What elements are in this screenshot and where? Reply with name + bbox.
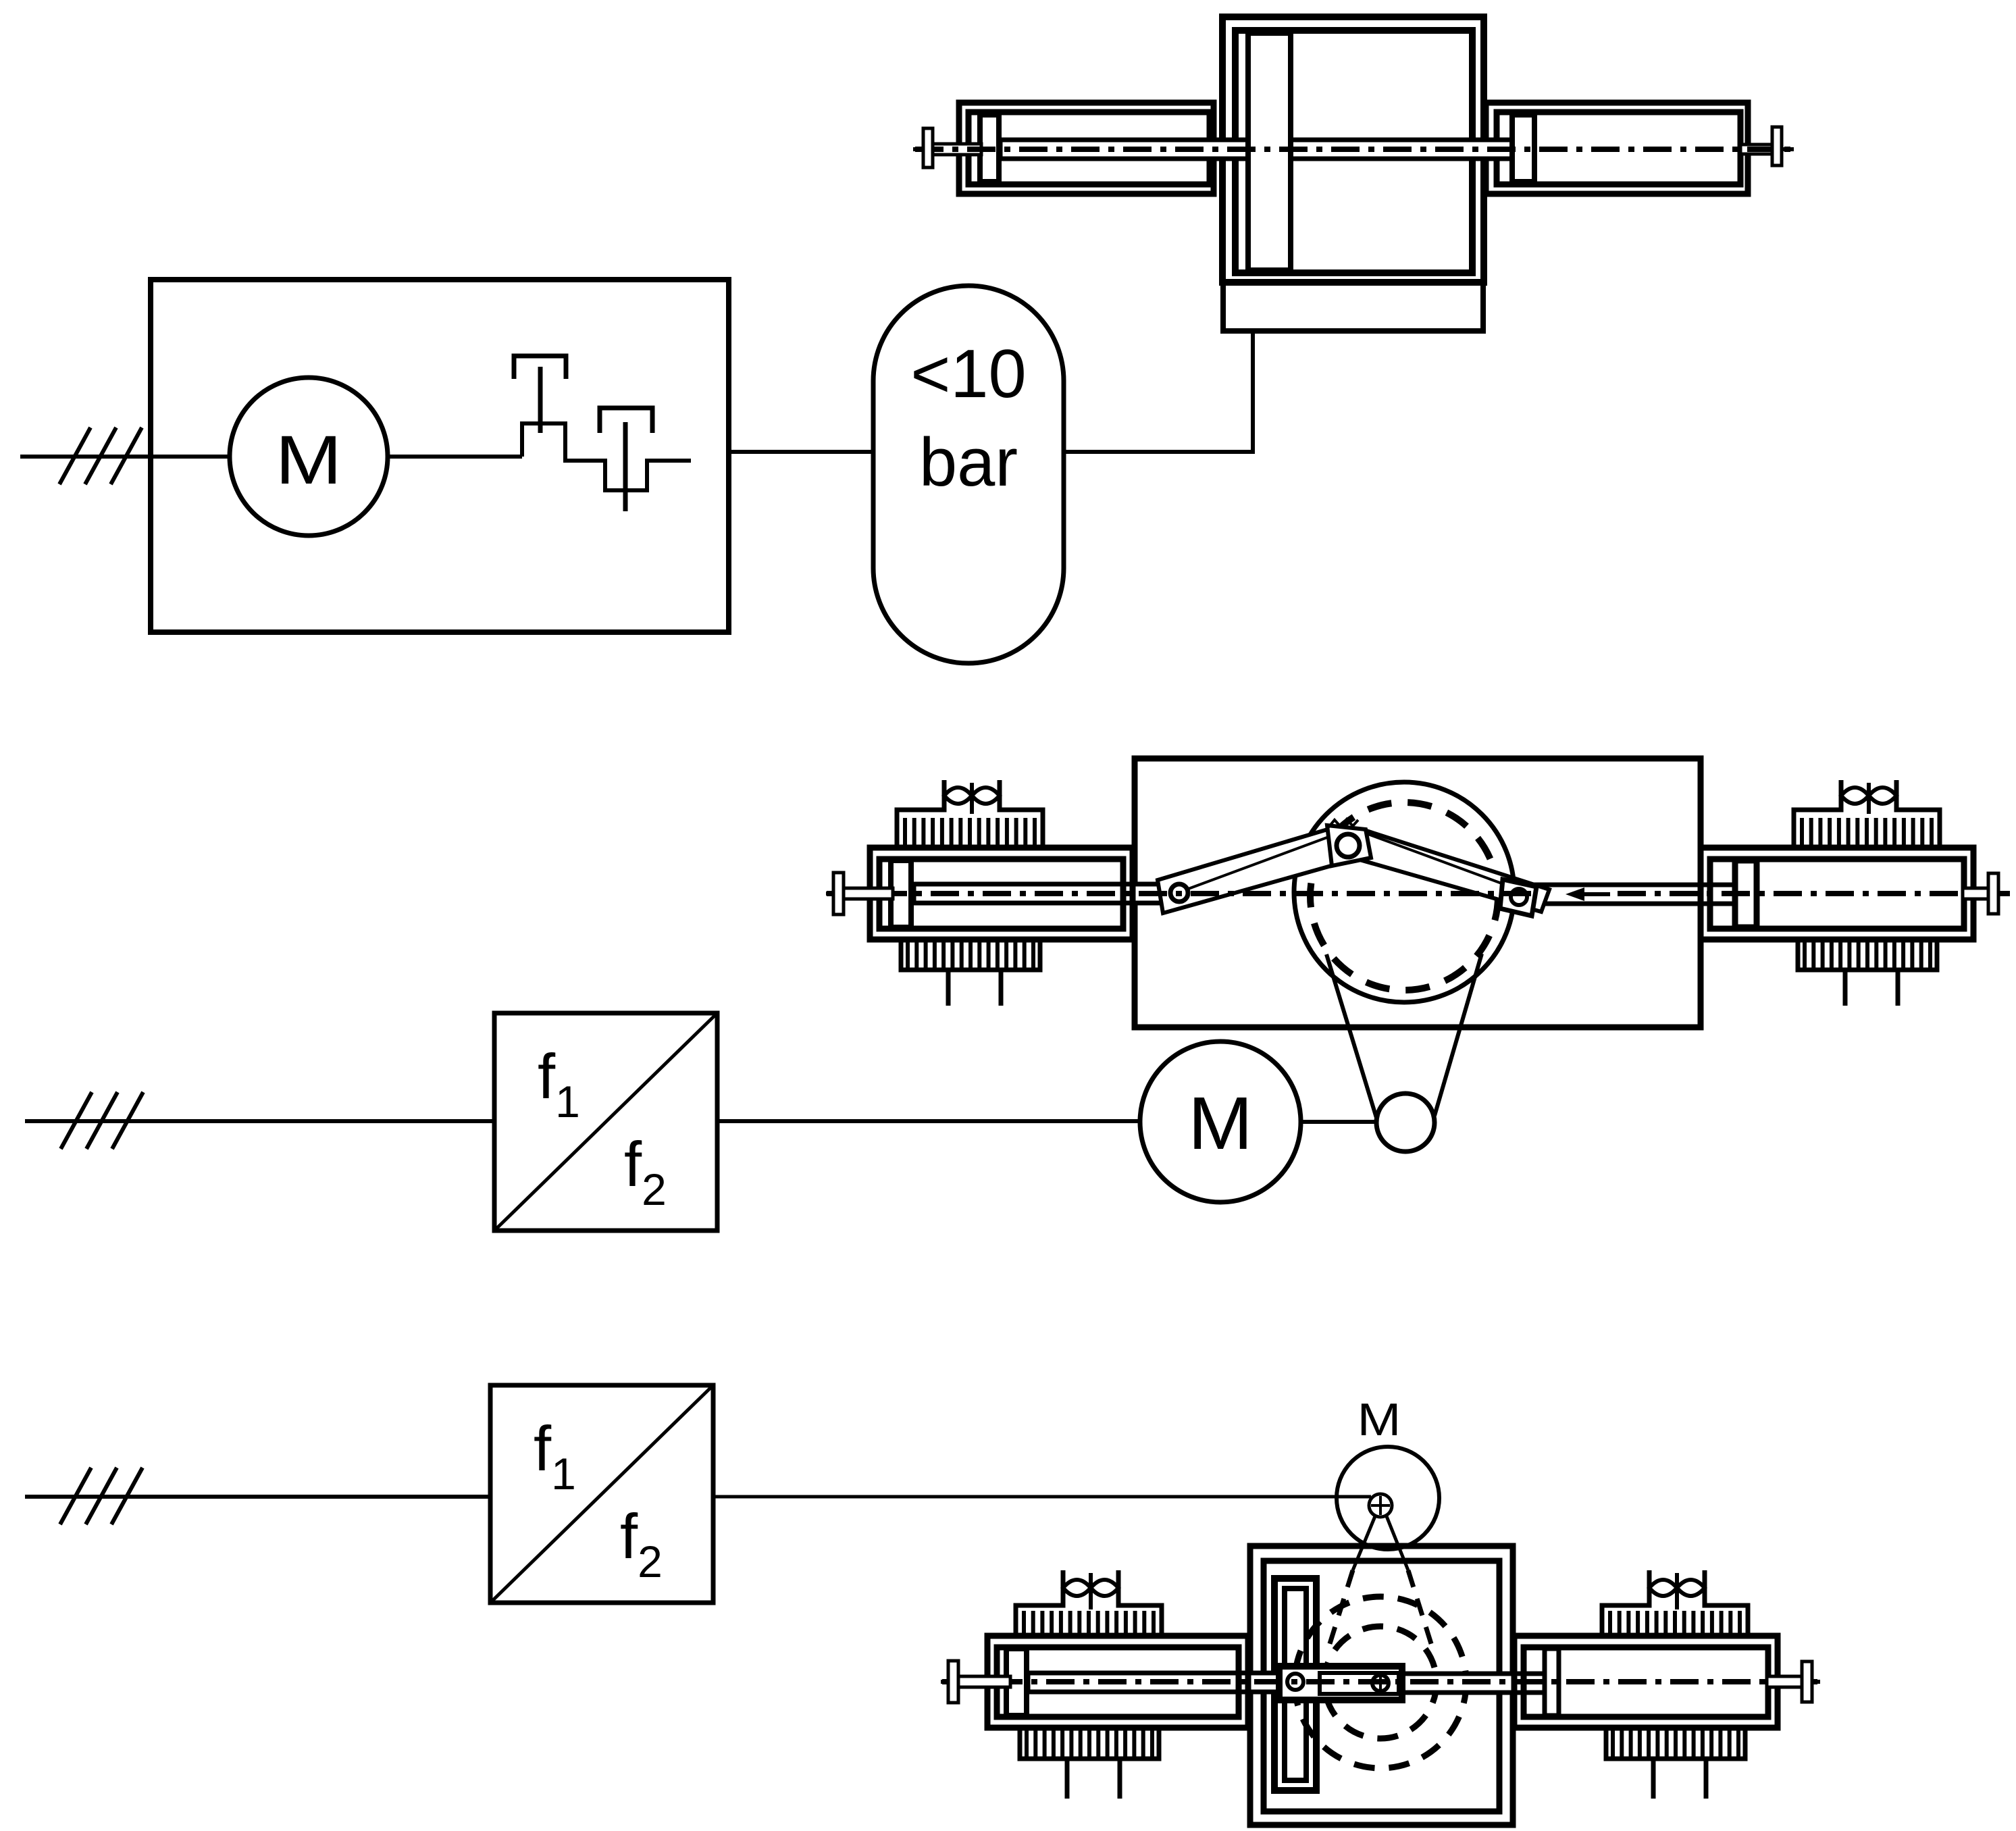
- left cylinder row 2 bottom fin block outline: [901, 939, 1040, 970]
- right cylinder row 2 bottom cooling fins: [1803, 941, 1807, 968]
- left cylinder row 3 piston: [1006, 1649, 1027, 1716]
- pipe: accumulator to compressor horizontal: [1064, 450, 1253, 454]
- crank solid circle: [1294, 782, 1514, 1002]
- right cylinder row1 outer casing: [1486, 103, 1748, 194]
- svg-text:M: M: [1188, 1082, 1253, 1165]
- right cylinder row 2 end cap stub: [1998, 892, 2007, 896]
- crank pin row 3: [1372, 1675, 1389, 1691]
- left cylinder row 2 bottom cooling fins: [906, 941, 910, 968]
- svg-text:bar: bar: [919, 425, 1018, 500]
- right cylinder row 3 end cap stub: [1812, 1680, 1820, 1684]
- motor M1 circle: [230, 378, 388, 536]
- right cylinder row 2 top fin block outline: [1794, 780, 1841, 848]
- belt pulley: [1376, 1093, 1435, 1152]
- left cylinder row 2 piston: [891, 860, 911, 927]
- right cylinder row 2 rod to end cap: [1963, 888, 1988, 899]
- wire: motor M1 to switch: [389, 455, 522, 459]
- left cylinder rod row 3: [1028, 1673, 1279, 1692]
- frequency converter diagonal: [490, 1385, 713, 1603]
- switch actuator stem 2: [623, 422, 628, 511]
- switch actuator stem 1: [538, 367, 543, 433]
- right cylinder row 3 drain legs: [1651, 1759, 1656, 1799]
- scotch yoke outer: [1274, 1578, 1316, 1790]
- compressor pedestal: [1223, 282, 1483, 331]
- svg-text:M: M: [276, 421, 342, 498]
- right cylinder row 2 top cooling fins: [1800, 818, 1804, 848]
- right cylinder row 3 bottom fin block outline: [1606, 1728, 1745, 1759]
- right cylinder row 3 top cooling fins: [1608, 1611, 1612, 1636]
- left cylinder row 2 end cap stub: [826, 892, 833, 896]
- right rod stub row1: [1740, 145, 1772, 154]
- right cylinder row1 piston: [1512, 115, 1534, 182]
- pipe: riser to compressor base: [1251, 328, 1255, 454]
- left cylinder row 3 bottom cooling fins: [1025, 1729, 1029, 1757]
- left cylinder row 2 top fin block outline: [897, 780, 944, 848]
- left cylinder row 2 cylinder liner: [879, 859, 1123, 929]
- compressor piston: [1248, 33, 1291, 270]
- wire: mains supply line row 2: [25, 1119, 494, 1123]
- slider block row 2: [1500, 879, 1536, 916]
- left cylinder row 3 filler valve symbol: [1063, 1580, 1091, 1596]
- motor M3 shaft circle: [1369, 1494, 1392, 1517]
- mains hatch marks row 1: [59, 428, 91, 484]
- left cylinder row 2 filler valve symbol: [944, 788, 972, 804]
- belt leg dashed left row 3: [1328, 1570, 1353, 1648]
- switch stepped contact line: [522, 423, 691, 490]
- svg-text:<10: <10: [910, 336, 1026, 412]
- crank dashed circle outer row 3: [1295, 1597, 1466, 1768]
- right cylinder row1 liner: [1497, 112, 1740, 184]
- accumulator vessel: [873, 286, 1064, 663]
- left cylinder row 3 end cap plate: [948, 1661, 958, 1703]
- centreline row 1: [915, 147, 1792, 152]
- crank block serration: [1328, 819, 1358, 827]
- left end cap plate row1: [923, 128, 933, 167]
- right end cap stub row1: [1782, 147, 1794, 151]
- crank dashed circle inner row 3: [1324, 1626, 1437, 1738]
- right cylinder row 3 filler valve symbol: [1649, 1580, 1677, 1596]
- crank housing box row 2: [1135, 758, 1701, 1027]
- right cylinder row 2 drain legs: [1843, 970, 1848, 1006]
- motion arrow row 2: [1574, 892, 1610, 896]
- pump housing outer row 3: [1250, 1546, 1513, 1825]
- left cylinder row 3 rod to end cap: [958, 1676, 1010, 1687]
- crank block: [1327, 825, 1371, 866]
- piston rod row 1: [1000, 140, 1513, 159]
- control box outline: [151, 280, 729, 632]
- compressor housing outer: [1222, 17, 1484, 282]
- slider pin: [1511, 889, 1527, 905]
- left cylinder row 2 top cooling fins: [903, 818, 907, 848]
- right cylinder row 3 end cap plate: [1802, 1661, 1812, 1702]
- right cylinder row 2 end cap plate: [1988, 873, 1998, 914]
- left cylinder row 3 top cooling fins: [1022, 1611, 1026, 1636]
- frequency converter diagonal: [494, 1013, 717, 1231]
- right cylinder row 3 outer casing: [1514, 1636, 1778, 1728]
- wire: motor M2 to pulley: [1301, 1120, 1381, 1124]
- right connecting link row 2: [1358, 830, 1549, 912]
- left cylinder row 2 outer casing: [870, 848, 1133, 939]
- motor M2 circle: [1140, 1041, 1301, 1202]
- crosshead outer row 3: [1279, 1666, 1402, 1700]
- left cylinder row 3 cylinder liner: [997, 1647, 1239, 1717]
- left cylinder row1 outer casing: [959, 103, 1214, 194]
- link thin edge right: [1353, 829, 1524, 892]
- left cylinder row 3 outer casing: [987, 1636, 1248, 1728]
- left cylinder row 2 end cap plate: [833, 873, 844, 914]
- left cylinder row 2 drain legs: [946, 970, 951, 1006]
- mains hatch marks row 2: [61, 1092, 92, 1149]
- right cylinder row 3 cylinder liner: [1524, 1647, 1768, 1717]
- motor M3 shaft cross: [1371, 1504, 1390, 1507]
- right cylinder row 3 bottom cooling fins: [1611, 1729, 1615, 1757]
- mains hatch marks row 3: [60, 1468, 91, 1524]
- right cylinder row 2 piston: [1735, 860, 1757, 927]
- wire: mains supply line row 3: [25, 1495, 490, 1499]
- frequency converter box outline: [494, 1013, 717, 1231]
- switch actuator bracket 2: [600, 408, 652, 433]
- right cylinder rod row 2: [1534, 885, 1736, 904]
- right cylinder row 2 filler valve symbol: [1841, 788, 1869, 804]
- left link pin: [1170, 884, 1188, 902]
- right end cap plate row1: [1772, 127, 1782, 165]
- belt leg solid right row 3: [1387, 1516, 1408, 1570]
- wire: control box to accumulator: [729, 450, 873, 454]
- right cylinder row 3 piston: [1545, 1649, 1559, 1716]
- switch actuator bracket 1: [514, 356, 566, 379]
- right cylinder row 2 bottom fin block outline: [1798, 939, 1937, 970]
- belt leg solid left row 3: [1353, 1516, 1375, 1570]
- left cylinder row1 piston: [980, 115, 999, 182]
- right cylinder row 3 top fin block outline: [1602, 1570, 1649, 1636]
- left cylinder row 3 bottom fin block outline: [1020, 1728, 1159, 1759]
- left cylinder row 3 top fin block outline: [1016, 1570, 1063, 1636]
- right cylinder row 3 rod to end cap: [1767, 1676, 1802, 1687]
- crosshead inner row 3: [1320, 1673, 1399, 1694]
- left cylinder row 2 rod to end cap: [843, 888, 893, 899]
- right crosshead rod row 3: [1402, 1674, 1546, 1693]
- motor M3 circle: [1337, 1447, 1439, 1549]
- yoke pin row 3: [1287, 1674, 1303, 1690]
- belt line left: [1326, 954, 1376, 1118]
- crank dashed circle: [1310, 802, 1498, 990]
- left cylinder row1 liner: [968, 112, 1210, 184]
- right cylinder row 2 cylinder liner: [1710, 859, 1964, 929]
- centreline row 3: [942, 1679, 1819, 1684]
- left connecting link row 2: [1158, 827, 1350, 913]
- wire: converter to motor M2: [717, 1119, 1148, 1123]
- left cylinder row 3 end cap stub: [941, 1680, 948, 1684]
- wire: box to motor M1: [151, 455, 311, 459]
- left cylinder row 3 drain legs: [1065, 1759, 1070, 1799]
- frequency converter box outline: [490, 1385, 713, 1603]
- pump housing inner row 3: [1264, 1561, 1499, 1811]
- left end cap stub row1: [913, 147, 923, 151]
- left rod stub row1: [933, 144, 981, 155]
- compressor housing inner: [1235, 30, 1472, 273]
- wire: converter to motor M3 shaft: [713, 1495, 1371, 1499]
- svg-text:M: M: [1358, 1394, 1401, 1445]
- wire: mains supply line row 1: [20, 455, 151, 459]
- belt leg dashed right row 3: [1408, 1570, 1432, 1648]
- centreline row 2: [827, 891, 1534, 896]
- scotch yoke slot: [1285, 1589, 1306, 1780]
- right cylinder row 2 outer casing: [1701, 848, 1973, 939]
- left cylinder rod row 2: [914, 884, 1162, 903]
- belt line right: [1435, 954, 1482, 1116]
- crank pin circle: [1337, 834, 1360, 857]
- link thin edge left: [1179, 829, 1351, 892]
